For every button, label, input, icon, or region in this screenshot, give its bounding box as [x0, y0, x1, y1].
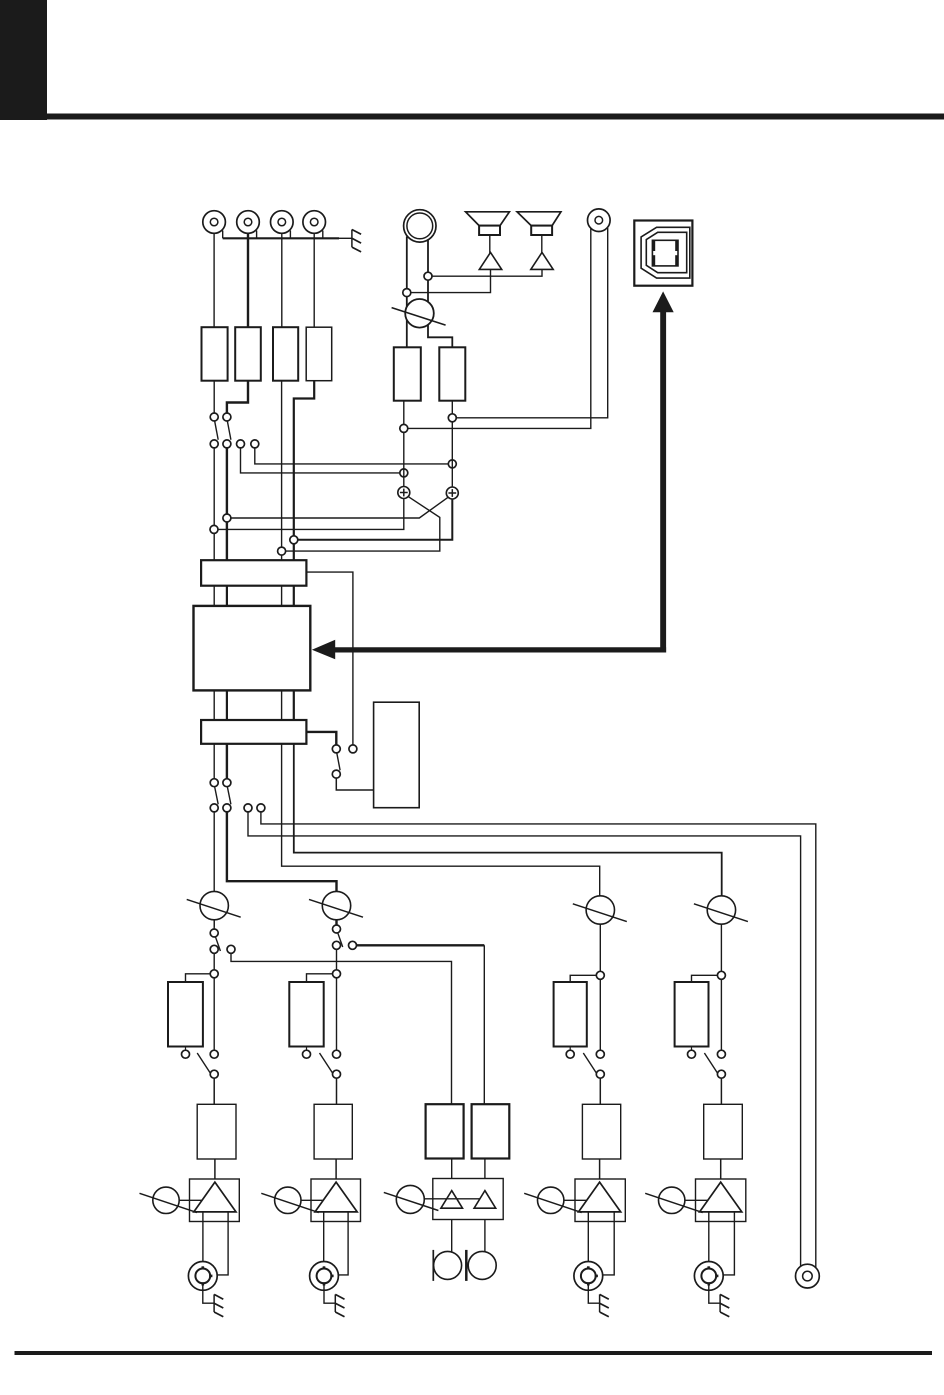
- switch S3 contact: [210, 804, 218, 812]
- gain knob G1: [153, 1187, 179, 1213]
- wire sleeve stub jack 2: [256, 231, 258, 239]
- monitor output jack (RCA): [796, 1264, 820, 1288]
- wire ch5 to fader: [720, 1078, 722, 1105]
- block R3 (input pad): [273, 327, 298, 381]
- switch S4 pole: [223, 779, 231, 787]
- switch S4 lever: [227, 787, 231, 805]
- wire line-out L link: [407, 229, 590, 429]
- wire R3 out: [281, 381, 283, 561]
- wire fader1 to amp: [214, 1159, 216, 1182]
- block A/D converter: [201, 560, 306, 586]
- wire sleeve stub jack 1: [222, 231, 224, 239]
- wire out5 ring: [720, 1212, 735, 1275]
- junction ch3 bus: [278, 547, 286, 555]
- wire AD tap to selector: [306, 572, 353, 745]
- switch aux2 contact: [333, 941, 341, 949]
- switch bypass1 lever: [197, 1053, 211, 1074]
- wire line-out R link: [456, 228, 608, 418]
- wire knob5 out: [720, 924, 722, 975]
- wire ch2 branch to EQ: [336, 977, 338, 1050]
- wire ch1 aux to ch3 L: [231, 953, 452, 1104]
- wire ch3 out R: [484, 1220, 486, 1252]
- block HP buffer L: [394, 347, 421, 400]
- wire EQ2 out stub: [306, 1047, 308, 1051]
- output amp A3 (stereo): [433, 1179, 503, 1220]
- block fader1: [197, 1104, 236, 1159]
- wire tip jack 4: [313, 233, 315, 327]
- output jack OUT4: [574, 1262, 603, 1291]
- block fader4: [582, 1104, 620, 1159]
- wire out4 tip: [587, 1212, 589, 1268]
- big arrow (USB link): [312, 640, 666, 660]
- switch S3 lever: [215, 787, 219, 805]
- wire R4 out (jog left): [294, 381, 314, 561]
- level knob VR1: [200, 891, 228, 919]
- chassis ground jack5: [719, 1294, 721, 1312]
- wire ch3 R to amp: [484, 1159, 486, 1191]
- wire EQ5 out stub: [691, 1047, 693, 1051]
- wire sum R diag to bus R: [231, 497, 449, 518]
- wire HP right lead (jog to rect B): [428, 238, 452, 348]
- contact C3: [237, 440, 245, 448]
- switch bypass1 contact A: [182, 1050, 190, 1058]
- switch aux1 pole: [210, 929, 218, 937]
- block EQ1: [168, 982, 203, 1047]
- junction line R: [448, 414, 456, 422]
- wire DA out 2: [226, 744, 228, 779]
- block ch3 R attenuator: [472, 1104, 510, 1158]
- block fader2: [314, 1104, 352, 1159]
- wire knob2 ctl: [301, 1199, 324, 1201]
- ground bus wire: [223, 237, 339, 239]
- gain knob G4: [538, 1187, 564, 1213]
- junction ch5: [717, 971, 725, 979]
- switch aux2 tap: [349, 941, 357, 949]
- switch bypass4 contact B: [596, 1050, 604, 1058]
- switch bypass5 contact B: [717, 1050, 725, 1058]
- junction sum L in: [400, 469, 408, 477]
- wire selector to monitor box: [336, 778, 373, 790]
- speaker amp 2: [531, 252, 553, 269]
- switch bypass2 contact B: [333, 1050, 341, 1058]
- wire ch2 knob feed: [227, 812, 337, 927]
- wire thru 5: [213, 690, 215, 720]
- output amp A1: [190, 1179, 240, 1222]
- wire spk1: [489, 235, 491, 253]
- USB connector outer: [634, 221, 692, 286]
- summing node R: [446, 487, 458, 499]
- wire tip jack 1: [213, 233, 215, 327]
- block R4 (input pad): [306, 327, 332, 381]
- USB shell inner: [646, 232, 686, 272]
- wire EQ1 out stub: [185, 1047, 187, 1051]
- block fader5: [704, 1104, 743, 1159]
- wire out4 ring: [599, 1212, 614, 1275]
- junction bus L: [210, 525, 218, 533]
- summing node L: [398, 487, 410, 499]
- wire HP L down to sum: [403, 401, 405, 487]
- wire out1 ring: [214, 1212, 228, 1275]
- volume knob (output): [405, 299, 434, 328]
- output amp A5: [696, 1179, 746, 1222]
- footer rule: [15, 1351, 933, 1355]
- monitor tap contact 1: [244, 804, 252, 812]
- header black tab: [0, 0, 47, 120]
- selector contact a: [332, 745, 340, 753]
- wire ch1 to fader: [213, 1078, 215, 1105]
- wire out1 tip: [202, 1212, 204, 1268]
- junction HP right: [424, 272, 432, 280]
- wire knob4 out: [599, 924, 601, 975]
- wire ch4 to fader: [599, 1078, 601, 1105]
- wire DA out 1: [213, 744, 215, 779]
- output jack OUT1: [188, 1262, 217, 1291]
- wire thru 7: [281, 690, 283, 743]
- gain knob G5: [659, 1187, 685, 1213]
- block EQ5: [675, 982, 709, 1047]
- chassis ground jack2: [334, 1294, 336, 1312]
- wire HP left lead: [406, 237, 408, 348]
- contact C4: [251, 440, 259, 448]
- wire thru 1: [213, 586, 215, 606]
- wire monitor bus outer: [261, 812, 816, 1268]
- block D/A converter: [201, 720, 306, 744]
- wire ch1 knob feed: [213, 812, 215, 927]
- junction bus R: [223, 514, 231, 522]
- switch bypass5 lever: [704, 1053, 718, 1074]
- USB contact block: [652, 240, 678, 266]
- wire ch3 L to amp: [451, 1159, 453, 1191]
- chassis ground (input bus): [351, 230, 353, 248]
- block EQ4: [554, 982, 587, 1047]
- wire sum L diag to ch3 bus: [285, 497, 440, 551]
- junction sum R in: [448, 460, 456, 468]
- wire fader2 to amp: [335, 1159, 337, 1182]
- wire bus R down: [226, 448, 228, 561]
- wire to speaker amp 1: [410, 269, 490, 292]
- wire knob5 ctl: [685, 1199, 708, 1201]
- wire R1 out: [213, 381, 215, 414]
- header rule: [0, 114, 944, 120]
- wire knob1 out: [213, 920, 215, 930]
- wire C4 to sum node R: [255, 448, 449, 464]
- switch bypass4 lever: [583, 1053, 597, 1074]
- switch S3 pole: [210, 779, 218, 787]
- switch bypass1 contact B: [210, 1050, 218, 1058]
- wire R2 out (jog left): [227, 381, 248, 414]
- junction ch4 bus: [290, 536, 298, 544]
- switch bypass5 contact A: [688, 1050, 696, 1058]
- switch S1 contact: [210, 440, 218, 448]
- input jack IN3 (RCA): [271, 211, 294, 234]
- wire out2 tip: [323, 1212, 325, 1268]
- block EQ2: [289, 982, 323, 1047]
- junction ch4: [596, 971, 604, 979]
- switch bypass4 common: [596, 1070, 604, 1078]
- wire knob2 out: [336, 920, 338, 926]
- switch aux1 lever: [215, 937, 220, 951]
- wire ch1 branch to EQ: [213, 977, 215, 1050]
- output amp A4: [575, 1179, 625, 1222]
- block USB DSP: [194, 606, 311, 691]
- wire fader4 to amp: [599, 1159, 601, 1182]
- wire thru 8: [293, 690, 295, 743]
- wire ch5 branch to EQ: [720, 979, 722, 1050]
- wire thru 6: [226, 690, 228, 720]
- block R1 (input pad): [202, 327, 228, 381]
- wire jack1 sleeve: [203, 1285, 214, 1304]
- gain knob G2: [275, 1187, 301, 1213]
- input jack IN1 (RCA): [203, 211, 226, 234]
- wire tip jack 2: [247, 233, 249, 327]
- chassis ground jack1: [213, 1294, 215, 1312]
- output jack ch3 R: [465, 1250, 468, 1281]
- wire ch4 branch to EQ: [599, 979, 601, 1050]
- speaker amp 1: [479, 252, 501, 269]
- wire sleeve stub jack 3: [289, 231, 291, 239]
- output jack OUT5: [694, 1262, 723, 1291]
- wire knob1 ctl: [179, 1199, 202, 1201]
- wire jack4 sleeve: [588, 1285, 599, 1304]
- wire tip jack 3: [281, 233, 283, 327]
- wire jack5 sleeve: [709, 1285, 720, 1304]
- monitor tap contact 2: [257, 804, 265, 812]
- wire out2 ring: [335, 1212, 348, 1275]
- headphone jack: [404, 210, 436, 242]
- switch bypass4 contact A: [566, 1050, 574, 1058]
- switch aux1 contact: [210, 945, 218, 953]
- level knob VR5: [707, 896, 735, 924]
- wire spk2: [541, 235, 543, 253]
- switch aux2 lever: [338, 933, 343, 947]
- wire sleeve stub jack 4: [322, 231, 324, 239]
- wire to speaker amp 2: [432, 269, 542, 276]
- wire jack2 sleeve: [324, 1285, 335, 1304]
- junction ch2: [333, 970, 341, 978]
- wire EQ4 out stub: [569, 1047, 571, 1051]
- output amp A2: [311, 1179, 361, 1222]
- level knob VR4: [586, 896, 614, 924]
- speaker 1: [466, 212, 510, 226]
- switch aux2 pole: [333, 925, 341, 933]
- wire out5 tip: [708, 1212, 710, 1268]
- input jack IN4 (RCA): [303, 211, 326, 234]
- wire ch3 out L: [451, 1220, 453, 1253]
- wire sum R to ch4 bus: [297, 499, 452, 540]
- switch bypass5 common: [717, 1070, 725, 1078]
- block R2 (input pad): [235, 327, 261, 381]
- junction line L: [400, 424, 408, 432]
- wire ch2 aux to ch3 R: [357, 944, 485, 946]
- wire C3 to sum node L: [241, 448, 401, 473]
- wire ch5 feed: [294, 744, 722, 896]
- line output jack (RCA): [588, 209, 611, 232]
- USB shell outer: [641, 227, 690, 278]
- switch bypass1 common: [210, 1070, 218, 1078]
- wire knob4 ctl: [564, 1199, 587, 1201]
- block HP buffer R: [439, 347, 465, 400]
- wire bus L down: [213, 448, 215, 561]
- selector contact b: [349, 745, 357, 753]
- level knob VR2: [322, 891, 350, 919]
- switch S2 pole: [223, 413, 231, 421]
- wire thru 4: [293, 586, 295, 606]
- switch bypass2 contact A: [303, 1050, 311, 1058]
- output jack ch3 L: [432, 1250, 434, 1281]
- switch S1 pole: [210, 413, 218, 421]
- switch bypass2 lever: [320, 1053, 334, 1074]
- junction ch1: [210, 970, 218, 978]
- switch bypass2 common: [333, 1070, 341, 1078]
- wire sum L to bus L: [218, 499, 404, 530]
- speaker 2: [517, 212, 561, 226]
- wire DA tap to selector: [306, 732, 336, 745]
- wire knob3 ctl: [424, 1198, 480, 1200]
- switch S4 contact: [223, 804, 231, 812]
- selector lever: [337, 753, 340, 771]
- block direct monitor: [374, 702, 420, 808]
- junction HP left: [403, 289, 411, 297]
- gain knob G3: [396, 1185, 424, 1213]
- wire monitor bus inner: [248, 812, 801, 1267]
- input jack IN2 (RCA): [237, 211, 260, 234]
- chassis ground jack4: [599, 1294, 601, 1312]
- switch S1 lever: [215, 421, 219, 440]
- wire thru 3: [281, 586, 283, 606]
- output jack OUT2: [310, 1262, 339, 1291]
- selector common: [332, 770, 340, 778]
- switch aux1 tap: [227, 945, 235, 953]
- wire thru 2: [226, 586, 228, 606]
- wire fader5 to amp: [720, 1159, 722, 1182]
- wire ch4 feed: [282, 744, 600, 896]
- wire ch2 to fader: [336, 1078, 338, 1105]
- wire HP R down to sum: [451, 401, 453, 488]
- block ch3 L attenuator: [426, 1104, 464, 1158]
- switch S2 lever: [227, 421, 231, 440]
- switch S2 contact: [223, 440, 231, 448]
